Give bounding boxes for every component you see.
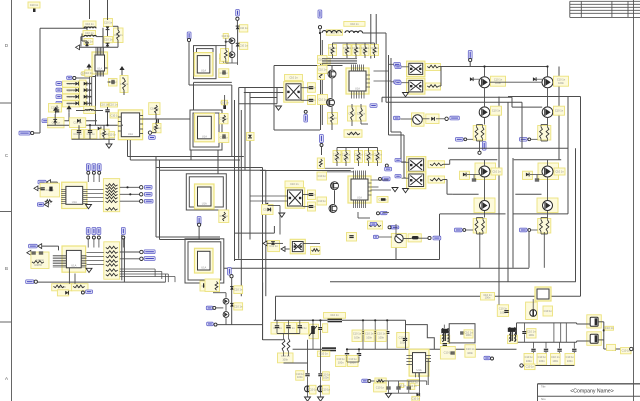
wire	[267, 242, 283, 244]
diode	[533, 77, 536, 81]
wire	[97, 36, 104, 38]
U2 pin	[97, 71, 99, 77]
capacitor	[275, 326, 279, 328]
resistor R28	[319, 70, 322, 78]
wire	[445, 329, 447, 341]
U9 pin	[359, 171, 361, 180]
net label NET17	[385, 167, 392, 171]
wire	[54, 123, 56, 125]
U11 pin	[81, 259, 86, 261]
wire	[120, 273, 169, 275]
wire loop	[197, 49, 214, 76]
label D15 value	[621, 348, 632, 354]
U11 pin	[81, 264, 86, 266]
U11 pin	[53, 254, 67, 256]
resistor R26	[369, 224, 381, 227]
title block label	[541, 385, 546, 388]
resistor R13	[347, 132, 360, 135]
wire	[224, 267, 529, 269]
wire	[355, 43, 357, 47]
net label NET42	[395, 81, 401, 84]
label box LB38	[551, 354, 561, 366]
label T2	[508, 335, 518, 343]
terminal P17	[140, 186, 143, 189]
wire	[88, 197, 104, 199]
wire	[400, 132, 402, 162]
resistor R5	[155, 125, 158, 131]
wire	[484, 211, 486, 218]
U4 pin	[61, 195, 66, 197]
rev table line	[627, 1, 629, 17]
net label NET33	[86, 228, 90, 235]
wire	[351, 104, 353, 108]
wire	[89, 76, 96, 78]
terminal P37	[214, 323, 217, 326]
wire	[79, 102, 84, 104]
capacitor C19	[39, 252, 43, 254]
label D17	[239, 42, 248, 49]
wire	[517, 322, 577, 324]
svg-text:C10 1n: C10 1n	[538, 355, 547, 359]
label D13	[440, 346, 455, 359]
capacitor C28	[407, 387, 411, 389]
U11 pin	[53, 259, 67, 261]
resistor	[357, 152, 360, 161]
wire	[540, 218, 542, 221]
U2 pin	[95, 47, 97, 55]
transistor Q5	[223, 298, 229, 304]
label C20	[397, 333, 409, 348]
svg-text:C10 1n: C10 1n	[357, 111, 366, 115]
wire	[67, 102, 76, 104]
power VP1	[119, 66, 124, 73]
wire	[512, 328, 514, 341]
wire	[402, 66, 409, 68]
wire	[235, 259, 440, 261]
wire	[319, 330, 321, 349]
wire	[389, 134, 405, 136]
U4 pin	[61, 189, 66, 191]
U4 pin	[83, 195, 88, 197]
wire	[347, 348, 516, 350]
wire	[558, 67, 560, 160]
terminal P7	[304, 110, 307, 113]
junction	[89, 124, 91, 126]
wire	[320, 40, 322, 130]
junction	[319, 32, 321, 34]
svg-text:C10 1n: C10 1n	[622, 349, 631, 353]
wire	[160, 169, 266, 171]
capacitor C18	[31, 252, 35, 254]
wire	[360, 120, 362, 124]
wire	[123, 237, 125, 282]
U11 pin	[81, 261, 86, 263]
resistor	[481, 127, 484, 139]
U8 pin	[353, 65, 355, 72]
label L4	[326, 30, 342, 35]
wire	[273, 226, 275, 233]
label R22 R23	[278, 353, 294, 363]
wire	[547, 101, 549, 107]
rev table line	[570, 0, 640, 2]
wire	[559, 342, 561, 348]
label box LB30	[376, 330, 386, 342]
power VCC arrow	[86, 64, 91, 71]
terminal P42	[236, 17, 239, 20]
wire	[276, 88, 278, 104]
U9 pin	[361, 171, 363, 180]
T2 secondary	[514, 328, 515, 342]
wire	[303, 206, 309, 208]
svg-text:C10 1n: C10 1n	[411, 397, 420, 401]
label OK4	[391, 233, 406, 247]
label R28	[317, 69, 324, 80]
diode D21	[223, 105, 226, 109]
wire	[331, 79, 333, 98]
label F2	[317, 351, 329, 356]
label R16	[52, 284, 72, 291]
capacitor C20	[403, 339, 407, 341]
wire	[107, 0, 109, 20]
net label NET41	[395, 65, 401, 68]
wire	[476, 218, 478, 221]
svg-text:C10 1n: C10 1n	[318, 174, 327, 178]
wire	[235, 232, 275, 234]
label C13	[307, 96, 316, 105]
net label NET4	[56, 88, 62, 92]
label R4	[149, 103, 160, 115]
wire	[515, 193, 541, 195]
wire	[293, 348, 322, 350]
label C21	[296, 371, 305, 381]
wire	[301, 87, 309, 89]
svg-text:U1A: U1A	[201, 69, 206, 73]
wire	[479, 232, 481, 268]
wire	[331, 66, 333, 70]
svg-text:C10 1n: C10 1n	[220, 135, 229, 139]
wire	[123, 90, 125, 95]
wire	[513, 213, 568, 215]
U11 pin	[53, 264, 67, 266]
svg-text:100n: 100n	[558, 81, 564, 85]
wire loop	[186, 174, 226, 210]
wire	[240, 110, 242, 296]
wire	[244, 92, 286, 94]
wire	[78, 125, 80, 130]
net label NET25	[37, 203, 43, 206]
wire	[559, 352, 561, 365]
svg-text:U1A: U1A	[128, 132, 133, 136]
label D11	[234, 286, 243, 294]
wire loop	[189, 177, 223, 207]
wire loop	[190, 110, 222, 150]
transistor Q1	[479, 77, 490, 88]
U4 pin	[83, 201, 88, 203]
wire	[89, 75, 91, 106]
wire	[402, 82, 409, 84]
U4 pin	[83, 197, 88, 199]
wire	[362, 320, 364, 330]
wire	[541, 217, 548, 219]
U8 pin	[355, 65, 357, 72]
rev table line	[569, 1, 571, 17]
svg-text:C10 1n: C10 1n	[290, 182, 299, 186]
resistor R9	[215, 282, 218, 291]
label box LB1	[109, 79, 118, 87]
wire	[477, 217, 484, 219]
ground	[318, 397, 324, 401]
wire	[79, 83, 84, 85]
resistor	[336, 152, 339, 161]
wire	[217, 150, 219, 174]
wire	[299, 320, 301, 325]
U8 pin	[359, 65, 361, 72]
wire	[123, 78, 125, 79]
wire	[371, 380, 376, 382]
svg-text:C10 1n: C10 1n	[337, 357, 346, 361]
U8 pin	[363, 65, 365, 72]
wire bundle	[322, 167, 354, 169]
optocoupler OK9	[407, 172, 426, 189]
svg-text:C10 1n: C10 1n	[492, 109, 501, 113]
wire	[386, 334, 388, 349]
label	[491, 168, 502, 175]
label box LB33	[309, 385, 318, 394]
label L5	[344, 22, 365, 27]
label diode row	[63, 88, 81, 94]
IC U7 (regulator)	[195, 248, 214, 273]
wire	[476, 232, 478, 235]
net label VCC	[236, 10, 240, 17]
transistor Q2	[542, 77, 553, 88]
wire	[107, 30, 109, 47]
svg-text:C10 1n: C10 1n	[104, 20, 113, 24]
U4 pin	[61, 199, 66, 201]
label VR2	[587, 332, 602, 346]
U3 pin	[118, 125, 121, 127]
T2 primary	[509, 328, 510, 342]
label R17	[72, 284, 88, 291]
wire	[303, 242, 320, 244]
wire	[448, 147, 568, 149]
wire	[364, 43, 366, 47]
U11 pin	[53, 263, 67, 265]
svg-text:A: A	[5, 376, 8, 381]
IC U4 (MCU)	[62, 182, 87, 208]
terminal P35	[230, 275, 233, 278]
wire	[402, 161, 409, 163]
wire	[320, 377, 322, 386]
junction	[126, 186, 128, 188]
wire	[351, 120, 353, 126]
RN1 resistor	[106, 196, 118, 199]
label R21	[428, 176, 445, 183]
wire	[87, 260, 104, 262]
diode D7	[98, 127, 101, 131]
resistor R24	[377, 380, 385, 383]
fuse F1	[328, 318, 343, 322]
U3 pin	[118, 121, 121, 123]
U4 pin	[61, 203, 66, 205]
wire	[94, 110, 103, 112]
wire	[388, 55, 390, 135]
junction	[546, 65, 548, 67]
wire	[320, 349, 322, 373]
U9 pin	[363, 200, 365, 208]
wire	[190, 150, 192, 160]
capacitor	[385, 332, 389, 334]
label D21	[220, 100, 229, 105]
net label NET29	[145, 186, 153, 190]
wire	[88, 201, 104, 203]
svg-text:C10 1n: C10 1n	[349, 357, 358, 361]
net label NET56	[484, 356, 490, 359]
cap CE2	[318, 386, 324, 392]
label D20	[523, 171, 533, 179]
U3 pin	[118, 130, 121, 132]
wire	[67, 89, 76, 91]
net label NET20	[390, 226, 396, 229]
label box LB12	[200, 281, 212, 291]
net label NET37	[144, 250, 155, 254]
label L2B	[83, 31, 96, 36]
label	[84, 70, 93, 76]
wire	[368, 148, 370, 153]
RN1 resistor	[106, 184, 118, 187]
wire loop	[194, 46, 217, 79]
U8 pin	[366, 78, 370, 80]
wire	[573, 342, 575, 348]
wire	[484, 160, 486, 166]
crystal group	[40, 183, 59, 197]
wire loop	[449, 324, 475, 343]
wire	[528, 232, 530, 268]
wire	[484, 101, 486, 107]
wire	[107, 112, 109, 126]
wire	[440, 67, 442, 87]
terminal P1	[31, 131, 34, 134]
label R27	[377, 197, 388, 203]
label R25	[222, 34, 231, 39]
wire	[74, 274, 76, 284]
transistor Q4	[542, 107, 553, 118]
resistor R11	[351, 108, 354, 120]
wire	[276, 320, 278, 325]
wire	[530, 174, 542, 176]
label box LB14	[343, 45, 352, 56]
label D2	[84, 39, 93, 45]
wire	[155, 113, 157, 119]
U8 pin	[353, 91, 355, 99]
wire	[129, 140, 131, 160]
wire	[540, 232, 542, 235]
wire bundle	[322, 63, 357, 65]
wire	[386, 101, 522, 103]
capacitor	[557, 349, 561, 351]
U3 pin	[140, 115, 143, 117]
terminal P23	[122, 236, 125, 239]
junction	[106, 124, 108, 126]
wire	[573, 352, 575, 365]
wire	[398, 390, 400, 393]
IC U11 (MCU)	[62, 246, 86, 272]
label D12	[234, 303, 243, 310]
wire	[273, 66, 275, 131]
terminal P2	[73, 76, 76, 79]
zone letter D	[5, 43, 9, 48]
U9 pin	[357, 171, 359, 180]
label D16	[239, 25, 248, 32]
transistor Q7	[229, 38, 235, 44]
wire	[547, 88, 549, 102]
wire	[56, 182, 58, 186]
wire	[467, 138, 473, 140]
wire	[346, 55, 348, 59]
wire	[476, 139, 478, 142]
wire	[531, 138, 538, 140]
IC U12 (TOPSwitch)	[409, 349, 429, 376]
capacitor	[361, 332, 365, 334]
wire	[598, 339, 604, 341]
sheet zone tick	[0, 211, 12, 213]
wire	[388, 381, 390, 386]
terminal P9	[379, 177, 382, 180]
svg-text:U1A: U1A	[357, 196, 362, 200]
wire	[167, 274, 169, 282]
wire	[371, 179, 389, 181]
label R30	[311, 247, 321, 255]
wire	[443, 329, 445, 341]
wire	[239, 87, 286, 89]
U9 pin	[361, 200, 363, 208]
wire	[565, 323, 567, 342]
label R13	[344, 130, 362, 137]
label D18	[247, 133, 255, 141]
junction	[483, 65, 485, 67]
wire	[244, 88, 246, 171]
U9 pin	[365, 171, 367, 180]
U9 pin	[357, 200, 359, 208]
wire	[120, 271, 162, 273]
wire	[198, 226, 200, 238]
svg-text:100n: 100n	[526, 359, 532, 363]
net label NET39	[26, 280, 34, 284]
label Q1	[318, 56, 328, 64]
wire bundle	[322, 171, 354, 173]
port arrow	[63, 82, 67, 86]
svg-text:C10 1n: C10 1n	[318, 67, 327, 71]
label	[554, 168, 565, 175]
transistor Q6	[223, 312, 229, 318]
ground	[305, 397, 311, 401]
label box LB3	[109, 102, 118, 107]
wire	[38, 187, 43, 189]
wire	[374, 334, 376, 349]
svg-text:C10 1n: C10 1n	[330, 313, 339, 317]
terminal P19	[140, 200, 143, 203]
wire	[381, 97, 383, 102]
wire	[386, 320, 388, 330]
wire	[250, 200, 288, 202]
wire	[319, 29, 321, 33]
svg-text:C10 1n: C10 1n	[234, 304, 243, 308]
diode D2	[85, 43, 89, 46]
resistor R29	[319, 159, 322, 167]
wire	[276, 295, 581, 297]
fuse F2	[322, 347, 336, 351]
net label NET32	[29, 244, 37, 248]
label box LB19	[333, 151, 342, 163]
